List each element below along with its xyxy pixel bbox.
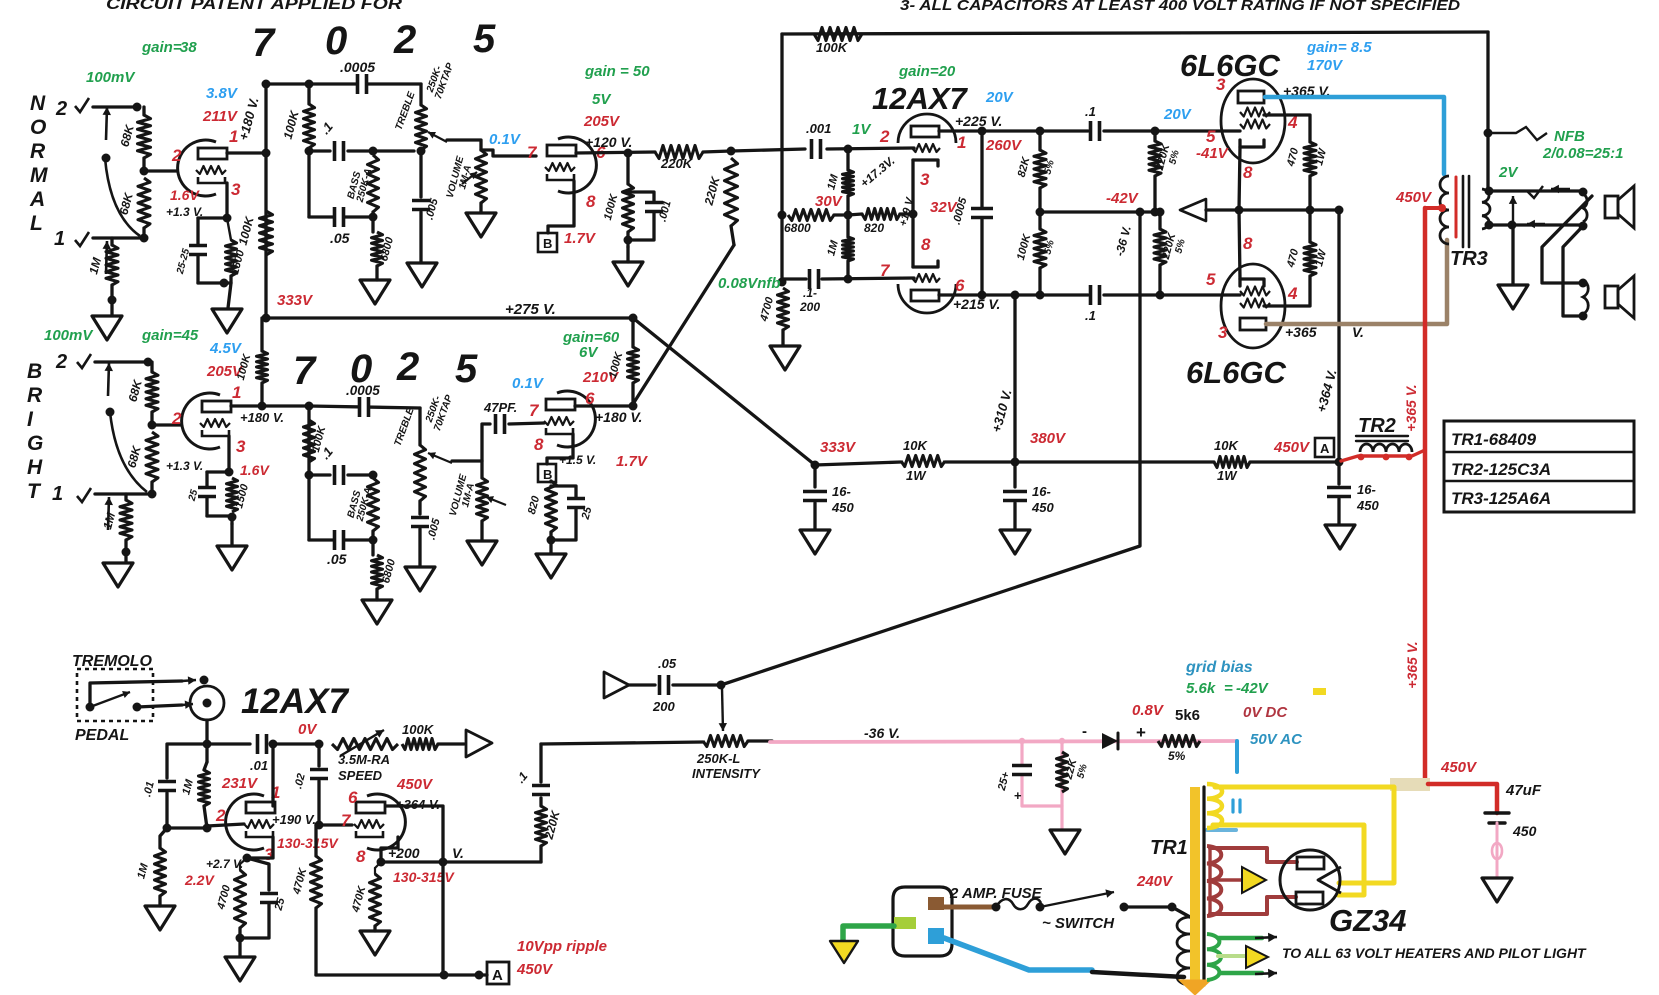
svg-text:.01: .01: [250, 758, 268, 773]
svg-text:3- ALL CAPACITORS AT LEAST 400: 3- ALL CAPACITORS AT LEAST 400 VOLT RATI…: [900, 0, 1460, 14]
capacitor .005 bright: [411, 516, 429, 528]
svg-text:5.6k: 5.6k: [1186, 680, 1216, 697]
wire jack crossover: [1542, 196, 1592, 283]
svg-text:-41V: -41V: [1196, 145, 1230, 162]
wiper volume: [462, 172, 477, 184]
svg-text:200: 200: [652, 699, 675, 714]
svg-text:TR3-125A6A: TR3-125A6A: [1451, 489, 1551, 508]
svg-text:100K: 100K: [402, 722, 435, 737]
svg-text:6800: 6800: [784, 221, 811, 235]
svg-text:0.08Vnfb: 0.08Vnfb: [718, 275, 781, 292]
resistor 100K plate V1b: [260, 318, 263, 351]
svg-text:5%: 5%: [1168, 749, 1186, 763]
ground 6800: [360, 280, 390, 304]
GZ34 plate bottom: [1296, 892, 1323, 904]
svg-text:3.5M-RA: 3.5M-RA: [338, 752, 390, 767]
wire plate V2a: [576, 152, 655, 153]
svg-text:450V: 450V: [1395, 189, 1433, 206]
capacitor .01 shunt: [167, 744, 207, 778]
svg-text:3: 3: [1216, 75, 1226, 94]
svg-text:+2.7 V.: +2.7 V.: [206, 857, 243, 871]
wire grid V1b: [152, 423, 181, 426]
ground .005 bright: [405, 567, 435, 591]
svg-text:6L6GC: 6L6GC: [1180, 48, 1281, 83]
input jack 1 NORMAL: [75, 232, 89, 246]
wire cathodes to bus: [1239, 147, 1240, 210]
svg-text:+: +: [1136, 723, 1146, 742]
svg-text:450: 450: [1031, 500, 1054, 515]
svg-text:450V: 450V: [1440, 759, 1478, 776]
capacitor .1-200 NFB: [808, 269, 820, 289]
wire blue plate 6L6 upper to OT: [1265, 97, 1444, 174]
wire +275V bus: [264, 316, 633, 319]
resistor 68K bright upper: [146, 372, 158, 412]
NFB vertical bus: [780, 34, 783, 282]
wire -36V drop: [721, 212, 1140, 685]
pedal contact 1: [86, 703, 95, 712]
capacitor 16-450 at 333V: [813, 465, 816, 487]
wire: [626, 153, 629, 184]
beige crossing highlight: [1390, 778, 1430, 791]
wire to grid PI upper: [827, 148, 914, 149]
svg-text:47uF: 47uF: [1505, 782, 1542, 799]
svg-text:450V: 450V: [516, 961, 554, 978]
wire: [846, 261, 849, 279]
svg-text:0.8V: 0.8V: [1132, 702, 1165, 719]
potentiometer BASS 250K-A: [368, 155, 379, 212]
svg-text:2V: 2V: [1498, 164, 1519, 181]
potentiometer VOLUME 1M-A normal: [476, 150, 487, 203]
resistor 68K lower: [138, 178, 150, 228]
wire: [271, 742, 319, 745]
resistor 1M osc 2: [155, 848, 166, 896]
svg-text:0.1V: 0.1V: [512, 375, 545, 392]
svg-text:7: 7: [880, 261, 891, 280]
wire tone stack top bright: [309, 406, 420, 408]
svg-text:211V: 211V: [202, 108, 239, 125]
wiper treble: [428, 132, 447, 142]
switch blade: [1040, 892, 1114, 907]
blue tick 2: [1238, 800, 1241, 812]
wire plate V1b: [231, 404, 309, 407]
svg-text:8: 8: [586, 192, 596, 211]
svg-text:TR2-125C3A: TR2-125C3A: [1451, 460, 1551, 479]
svg-text:+365: +365: [1285, 324, 1317, 340]
svg-text:.1: .1: [1085, 308, 1096, 323]
svg-text:8: 8: [1243, 234, 1253, 253]
svg-text:+365 V.: +365 V.: [1404, 641, 1420, 688]
TR1 HV winding: [1207, 846, 1221, 916]
wire: [207, 470, 229, 473]
svg-text:gain=45: gain=45: [141, 327, 199, 344]
svg-text:~ SWITCH: ~ SWITCH: [1042, 915, 1115, 932]
wire plate V4b: [386, 806, 443, 862]
wire pink bias line: [770, 741, 1236, 742]
wire to 6L6 upper grid: [1104, 129, 1240, 132]
svg-text:+225 V.: +225 V.: [955, 113, 1002, 129]
wire: [945, 460, 1214, 463]
svg-text:TR2: TR2: [1358, 415, 1396, 437]
RCA jack tremolo: [190, 686, 224, 720]
wire jack1: [93, 236, 144, 239]
svg-text:30V: 30V: [815, 193, 844, 210]
svg-text:2: 2: [55, 351, 67, 373]
wire grid V1a: [144, 169, 177, 172]
wire: [418, 501, 421, 514]
wire +200V down: [441, 862, 444, 975]
ground earth yellow: [830, 941, 858, 963]
wire: [781, 330, 784, 345]
resistor 6800 bright: [372, 555, 383, 589]
svg-text:TR3: TR3: [1450, 248, 1488, 270]
TR1 6.3V winding green: [1207, 934, 1221, 980]
resistor 1M PI upper: [843, 170, 854, 196]
wire: [227, 218, 231, 240]
svg-text:7: 7: [527, 143, 538, 162]
svg-text:3: 3: [231, 180, 241, 199]
wire: [782, 277, 806, 280]
wire dropper chain: [539, 846, 542, 862]
resistor 100K: [623, 184, 634, 232]
wire: [124, 494, 127, 500]
arrow yellow center tap: [1242, 867, 1266, 893]
wire pink caps drop: [1022, 741, 1062, 806]
svg-text:0V DC: 0V DC: [1243, 704, 1288, 721]
svg-text:380V: 380V: [1030, 430, 1067, 447]
wire treble wiper to volume: [447, 140, 481, 150]
wire cathode V2b: [547, 434, 573, 464]
wire to grid V2b: [509, 423, 544, 424]
wire: [371, 217, 374, 232]
wire green earth: [843, 926, 894, 940]
svg-text:1.7V: 1.7V: [616, 453, 649, 470]
node NFB: [778, 278, 787, 287]
wire pink 47uF to ground: [1496, 823, 1499, 877]
wire mid to treble: [348, 149, 414, 152]
svg-text:=: =: [1224, 680, 1233, 697]
capacitor .001 parallel: [628, 192, 654, 201]
wire to grid PI lower: [822, 278, 914, 279]
arrow heater 2: [1255, 973, 1277, 974]
wire brown plate 6L6 lower to OT: [1266, 240, 1447, 324]
node 0V: [315, 740, 324, 749]
resistor 820 PI tail: [862, 209, 900, 220]
capacitor .05-200 tremolo out: [604, 672, 629, 698]
potentiometer 250K-L INTENSITY: [703, 736, 748, 747]
svg-text:450: 450: [1356, 498, 1379, 513]
resistor 470 1W lower: [1304, 242, 1316, 276]
svg-text:10K: 10K: [903, 438, 928, 453]
cathode 6L6 lower: [1240, 279, 1264, 286]
resistor 220K coupling: [655, 146, 703, 159]
capacitor .01 series: [256, 734, 268, 754]
svg-text:130-315V: 130-315V: [277, 835, 339, 851]
triode PI upper half: [898, 114, 956, 143]
resistor 220K dropper: [536, 806, 547, 846]
svg-text:+365 V.: +365 V.: [1403, 384, 1419, 431]
svg-text:8: 8: [1243, 163, 1253, 182]
wire: [480, 521, 483, 540]
wire: [673, 683, 721, 686]
wire: [1013, 503, 1016, 529]
ground bias: [1050, 830, 1080, 854]
wire: [1250, 460, 1339, 463]
capacitor 25 bias: [1012, 764, 1032, 776]
node tremolo inject: [717, 681, 726, 690]
resistor 100K speed: [402, 739, 438, 750]
wire cathode join bright: [207, 516, 232, 524]
wire: [205, 498, 208, 516]
svg-text:2: 2: [396, 345, 419, 389]
resistor 100K NFB bus: [814, 28, 862, 41]
wire HV winding side: [1208, 848, 1211, 914]
svg-text:260V: 260V: [985, 137, 1023, 154]
svg-text:2/0.08=25:1: 2/0.08=25:1: [1542, 145, 1624, 162]
wire: [549, 481, 552, 482]
wire: [230, 524, 233, 545]
diode bias rectifier: [1102, 733, 1118, 749]
wire top NFB bus: [782, 32, 1488, 34]
svg-text:7: 7: [341, 811, 352, 830]
wire red OT center tap: [1455, 177, 1458, 237]
resistor 100K slope bright: [304, 420, 315, 462]
wire: [110, 238, 113, 245]
wire: [165, 793, 168, 828]
wire: [314, 908, 317, 975]
svg-text:gain=20: gain=20: [898, 63, 956, 80]
ground input NORMAL: [92, 316, 122, 340]
resistor 220K mix vertical: [725, 158, 738, 226]
wire cathode join: [198, 276, 231, 283]
svg-text:GZ34: GZ34: [1329, 903, 1407, 938]
wire: [158, 896, 161, 906]
wire green heater 1: [1218, 936, 1262, 941]
svg-text:R: R: [27, 384, 43, 407]
wire treble wiper to 47PF: [452, 424, 490, 461]
svg-text:-42V: -42V: [1106, 190, 1140, 207]
wire mid: [309, 149, 330, 152]
wire +200V row: [381, 860, 541, 863]
TR1 ground orange: [1179, 980, 1211, 995]
svg-text:450V: 450V: [1273, 439, 1311, 456]
triode V2a 7025: [558, 137, 596, 193]
grid2 6L6 upper: [1240, 120, 1270, 129]
svg-text:16-: 16-: [1357, 482, 1376, 497]
node mix: [727, 147, 736, 156]
resistor 820 cathode V2b: [546, 481, 557, 532]
wire pale green center: [1218, 954, 1246, 958]
plug pin live (brown): [928, 897, 944, 910]
svg-text:.001: .001: [806, 121, 831, 136]
wire stack bottom bright: [309, 538, 373, 541]
capacitor .05 bright: [333, 530, 345, 550]
resistor 220K grid lower: [1154, 229, 1166, 265]
svg-text:2: 2: [879, 127, 890, 146]
svg-text:2: 2: [171, 409, 182, 428]
capacitor .1 mid: [333, 141, 345, 161]
ground 16-450 third: [1325, 525, 1355, 549]
GZ34 plate top: [1297, 857, 1324, 869]
ground cathode V1b: [217, 546, 247, 570]
wire: [150, 362, 153, 372]
node grid V1b: [148, 421, 157, 430]
svg-text:50V AC: 50V AC: [1250, 731, 1303, 748]
wire pink to ground: [1060, 806, 1063, 828]
wire: [846, 196, 849, 215]
terminal A box: [1315, 438, 1334, 457]
triode V4b 12AX7 tremolo: [367, 794, 405, 850]
TR1 core yellow bar: [1190, 787, 1200, 989]
svg-text:7: 7: [529, 401, 540, 420]
svg-text:-42V: -42V: [1236, 680, 1270, 697]
TR1 core line: [1202, 787, 1205, 985]
ground 47uF: [1482, 878, 1512, 902]
svg-text:-: -: [1082, 723, 1087, 740]
wire: [418, 529, 421, 566]
svg-text:5: 5: [1206, 270, 1216, 289]
svg-text:NFB: NFB: [1554, 128, 1585, 145]
svg-text:10Vpp ripple: 10Vpp ripple: [517, 938, 607, 955]
svg-text:+200: +200: [388, 845, 420, 861]
svg-text:+1.5 V.: +1.5 V.: [559, 453, 596, 467]
TR1 5V winding yellow: [1207, 784, 1222, 828]
transformer TR3 core: [1462, 176, 1465, 247]
wire: [539, 798, 542, 806]
wire bottom row to A: [316, 973, 487, 976]
svg-text:+275 V.: +275 V.: [505, 301, 556, 318]
capacitor .0005 treble: [356, 74, 368, 94]
capacitor .1 dropper: [532, 784, 550, 796]
wire secondary top to jacks: [1488, 189, 1580, 192]
svg-text:205V: 205V: [583, 113, 621, 130]
svg-text:220K: 220K: [660, 156, 694, 171]
terminal A box left: [487, 962, 509, 984]
choke TR2 winding: [1360, 444, 1412, 452]
svg-text:6L6GC: 6L6GC: [1186, 355, 1287, 390]
svg-text:+120 V.: +120 V.: [585, 134, 632, 150]
wire grid V4b: [316, 823, 352, 826]
svg-text:V.: V.: [452, 845, 464, 861]
wire: [1337, 499, 1340, 524]
svg-text:M: M: [30, 164, 48, 187]
wire: [150, 412, 153, 425]
svg-text:+: +: [1014, 788, 1022, 803]
transformer TR3 primary: [1440, 176, 1449, 244]
ground 16-450 first: [800, 530, 830, 554]
potentiometer 3.5M-RA SPEED: [332, 739, 398, 750]
input jack 1 BRIGHT: [77, 488, 91, 502]
wire: [205, 472, 208, 486]
resistor 100K slope: [304, 104, 315, 148]
wire green heater 2: [1220, 971, 1262, 976]
wire jack1 bright: [95, 492, 152, 495]
triode V1b 7025 bright: [182, 393, 220, 449]
triode V4a 12AX7 tremolo: [226, 794, 264, 850]
wire: [846, 215, 849, 237]
wire yellow filament 1: [1215, 787, 1394, 883]
svg-text:2: 2: [215, 806, 226, 825]
speaker jack 1 contacts: [1583, 194, 1587, 222]
svg-text:1.7V: 1.7V: [564, 230, 597, 247]
wire stack bottom: [309, 215, 373, 218]
wire pedal to jack bottom: [137, 705, 182, 707]
wire: [626, 232, 629, 247]
svg-text:A: A: [492, 967, 503, 984]
wire: [626, 247, 629, 262]
yellow tick: [1313, 688, 1326, 695]
wire HV center tap: [1210, 878, 1245, 881]
wire red +365V bus: [1423, 208, 1428, 780]
node PI tail: [844, 211, 853, 220]
cathode 6L6 upper: [1240, 140, 1264, 147]
wire blue tap into core: [1207, 828, 1236, 832]
svg-text:0V: 0V: [298, 721, 318, 738]
svg-text:1.6V: 1.6V: [170, 187, 200, 203]
svg-text:8: 8: [921, 235, 931, 254]
wire: [371, 212, 374, 217]
svg-text:4.5V: 4.5V: [209, 340, 243, 357]
wire: [348, 473, 373, 476]
resistor 6800 NFB: [788, 210, 834, 221]
svg-text:16-: 16-: [832, 484, 851, 499]
wire: [419, 212, 422, 262]
wire plate V4a up to 0V node: [271, 744, 274, 806]
svg-text:16-: 16-: [1032, 484, 1051, 499]
svg-text:5: 5: [455, 347, 478, 391]
resistor 82K PI plate: [1034, 150, 1046, 188]
svg-text:4: 4: [1287, 284, 1298, 303]
wire jack down: [205, 720, 208, 744]
wire: [198, 216, 227, 219]
node plate V2a: [624, 149, 633, 158]
wire: [317, 781, 320, 825]
svg-text:A: A: [1320, 441, 1330, 456]
ground volume bright: [467, 541, 497, 565]
svg-text:gain=: gain=: [141, 39, 182, 56]
capacitor .0005 across PI plates: [980, 131, 983, 295]
svg-text:231V: 231V: [221, 775, 259, 792]
wire: [142, 107, 145, 115]
svg-text:+1.3 V.: +1.3 V.: [166, 459, 203, 473]
tube GZ34 envelope: [1280, 850, 1340, 910]
potentiometer BASS bright: [368, 478, 379, 531]
svg-text:333V: 333V: [277, 292, 314, 309]
capacitor 47uF: [1485, 811, 1509, 814]
svg-text:G: G: [27, 432, 43, 455]
resistor 68K bright lower: [146, 432, 158, 482]
wire: [846, 149, 849, 170]
svg-text:1: 1: [957, 133, 966, 152]
wire arc jack2 bright shunt: [110, 412, 147, 492]
wire plate PI upper: [939, 129, 1088, 132]
wire: [307, 84, 310, 104]
wire blue 50VAC tap: [1235, 741, 1239, 772]
resistor 1M osc: [205, 744, 208, 762]
pedal contact 2: [133, 703, 142, 712]
svg-text:0: 0: [325, 19, 347, 63]
svg-text:TO ALL 63 VOLT HEATERS AND PIL: TO ALL 63 VOLT HEATERS AND PILOT LIGHT: [1282, 945, 1587, 961]
wire bias feed: [1040, 210, 1160, 213]
wire: [479, 203, 482, 212]
svg-text:.1-: .1-: [803, 286, 817, 300]
ground input bright: [103, 563, 133, 587]
resistor 470 1W upper: [1264, 115, 1310, 142]
svg-text:gain= 8.5: gain= 8.5: [1306, 39, 1372, 56]
terminal B box V2b: [538, 464, 556, 482]
wire screen arrow: [1180, 199, 1206, 221]
wire B+ rail: [815, 462, 901, 465]
svg-text:R: R: [30, 140, 46, 163]
